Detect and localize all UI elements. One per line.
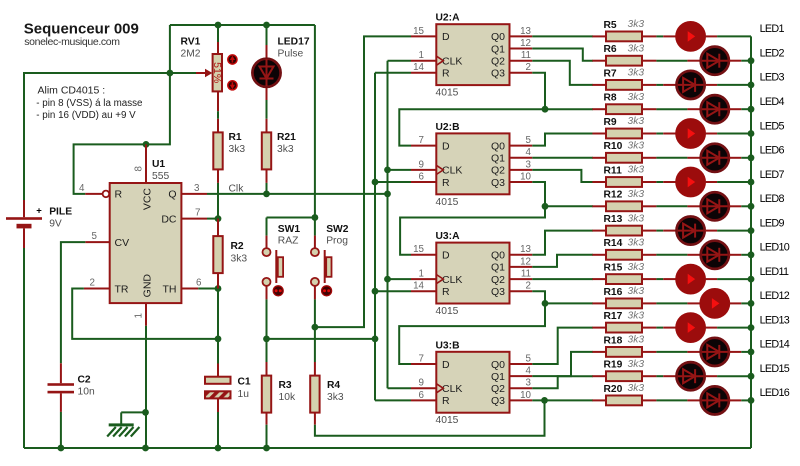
wire U2:A pin 13 bbox=[510, 35, 533, 37]
wire row9 cp bbox=[705, 230, 718, 232]
wire row8 a bbox=[656, 205, 687, 207]
wire batt+ to rail bbox=[24, 73, 196, 200]
svg-text:D: D bbox=[442, 359, 450, 371]
wire row10 ap bbox=[687, 254, 700, 256]
svg-text:R5: R5 bbox=[604, 20, 617, 31]
wire R7 right pin bbox=[642, 84, 656, 86]
shift register U3:B 4015 bbox=[411, 340, 532, 426]
resistor R16 3k3 bbox=[592, 286, 656, 308]
wire row4 ap bbox=[687, 108, 700, 110]
junction gnd-U1 bbox=[142, 445, 149, 452]
svg-text:LED3: LED3 bbox=[760, 72, 785, 84]
wire row10 cp bbox=[729, 254, 742, 256]
junction rail-RV1 bbox=[215, 22, 222, 29]
svg-text:2M2: 2M2 bbox=[181, 49, 201, 60]
svg-text:CLK: CLK bbox=[442, 383, 462, 395]
wire row16 ap bbox=[687, 399, 700, 401]
LED LED10 bbox=[701, 241, 729, 269]
wire r2 top pin bbox=[217, 219, 219, 237]
LED LED11 bbox=[675, 264, 706, 295]
wire battery bottom pin bbox=[23, 228, 25, 248]
wire R8 left pin bbox=[592, 108, 606, 110]
LED LED8 bbox=[701, 192, 729, 220]
LED LED13 bbox=[675, 312, 706, 343]
wire th-c1 bbox=[217, 289, 219, 364]
svg-text:3k3: 3k3 bbox=[628, 116, 645, 127]
wire R5 right pin bbox=[642, 35, 656, 37]
junction bus row13 bbox=[748, 324, 755, 331]
svg-text:R: R bbox=[442, 68, 450, 80]
svg-text:CV: CV bbox=[115, 237, 130, 249]
resistor R13 3k3 bbox=[592, 213, 656, 235]
svg-text:Pulse: Pulse bbox=[278, 49, 304, 60]
junction q3c-row12 bbox=[542, 300, 549, 307]
svg-text:3k3: 3k3 bbox=[231, 254, 248, 265]
resistor R2 bbox=[213, 236, 222, 273]
svg-text:R11: R11 bbox=[604, 165, 623, 176]
wire cathode bus bbox=[750, 36, 752, 448]
wire R14 right pin bbox=[642, 254, 656, 256]
wire row4 cp bbox=[729, 108, 742, 110]
junction bus row2 bbox=[748, 57, 755, 64]
wire q2 row15 bbox=[532, 376, 593, 388]
resistor R6 3k3 bbox=[592, 43, 656, 65]
wire U3:B pin 3 bbox=[510, 387, 533, 389]
wire u2a clk bbox=[388, 60, 412, 62]
junction tr-C1 bbox=[215, 336, 222, 343]
battery PILE 9V bbox=[6, 200, 72, 248]
svg-text:C2: C2 bbox=[78, 375, 91, 386]
svg-text:Q0: Q0 bbox=[491, 31, 505, 43]
wire r1 top pin bbox=[217, 119, 219, 133]
wire row5 c bbox=[717, 133, 751, 135]
wire q1 row14 bbox=[532, 352, 593, 376]
wire R11 left pin bbox=[592, 181, 606, 183]
svg-text:Q2: Q2 bbox=[491, 383, 505, 395]
svg-text:R: R bbox=[115, 189, 123, 201]
wire cv link bbox=[61, 242, 85, 363]
svg-text:1u: 1u bbox=[238, 389, 250, 400]
svg-text:4: 4 bbox=[526, 147, 532, 158]
svg-text:11: 11 bbox=[521, 50, 531, 61]
wire row10 a bbox=[656, 254, 687, 256]
wire R15 left pin bbox=[592, 278, 606, 280]
wire R13 right pin bbox=[642, 230, 656, 232]
wire u3b clk bbox=[388, 387, 412, 389]
junction rbus-raz bbox=[372, 336, 379, 343]
wire clk line bbox=[207, 193, 388, 195]
svg-text:3k3: 3k3 bbox=[628, 310, 645, 321]
resistor R11 3k3 bbox=[592, 165, 656, 187]
svg-text:14: 14 bbox=[413, 281, 424, 292]
svg-text:Alim CD4015 :: Alim CD4015 : bbox=[38, 85, 106, 97]
svg-text:14: 14 bbox=[413, 62, 424, 73]
svg-text:LED1: LED1 bbox=[760, 23, 785, 35]
svg-text:LED8: LED8 bbox=[760, 193, 785, 205]
wire row15 ap bbox=[663, 375, 676, 377]
svg-text:Q2: Q2 bbox=[491, 56, 505, 68]
wire row1 ap bbox=[663, 35, 676, 37]
svg-text:SW2: SW2 bbox=[326, 224, 349, 235]
svg-text:13: 13 bbox=[520, 26, 531, 37]
svg-text:1: 1 bbox=[419, 50, 424, 61]
wire row16 cp bbox=[729, 399, 742, 401]
junction clkbus-u2b bbox=[384, 167, 391, 174]
wire R18 right pin bbox=[642, 351, 656, 353]
junction bus row5 bbox=[748, 130, 755, 137]
wire SW1 top wire bbox=[266, 218, 268, 236]
svg-text:R10: R10 bbox=[604, 141, 623, 152]
wire r4 feedback bbox=[315, 400, 545, 435]
LED LED2 bbox=[701, 47, 729, 75]
junction bus row12 bbox=[748, 300, 755, 307]
wire U3:B pin 4 bbox=[510, 375, 533, 377]
wire raz-r3 bbox=[266, 339, 268, 362]
wire row12 cp bbox=[729, 302, 742, 304]
resistor R18 3k3 bbox=[592, 335, 656, 357]
svg-text:8: 8 bbox=[134, 165, 145, 171]
LED LED6 bbox=[701, 144, 729, 172]
svg-text:9V: 9V bbox=[49, 218, 62, 229]
wire raz line bbox=[267, 338, 376, 340]
wire row1 a bbox=[656, 35, 663, 37]
resistor R20 3k3 bbox=[592, 383, 656, 405]
svg-text:R19: R19 bbox=[604, 360, 623, 371]
wire U2:B pin 3 bbox=[510, 169, 533, 171]
svg-text:2: 2 bbox=[526, 281, 531, 292]
wire r1 bottom pin bbox=[217, 169, 219, 183]
svg-text:Q0: Q0 bbox=[491, 140, 505, 152]
svg-text:LED15: LED15 bbox=[760, 363, 790, 375]
svg-text:3: 3 bbox=[194, 183, 200, 194]
svg-text:SW1: SW1 bbox=[278, 224, 301, 235]
wire led17 top pin bbox=[266, 45, 268, 58]
wire u2a r bbox=[375, 72, 411, 74]
svg-text:- pin 8 (VSS) á la masse: - pin 8 (VSS) á la masse bbox=[36, 98, 143, 109]
junction bus row3 bbox=[748, 82, 755, 89]
wire U2:B pin 6 bbox=[411, 181, 436, 183]
svg-text:CLK: CLK bbox=[442, 274, 462, 286]
wire row15 a bbox=[656, 375, 663, 377]
svg-text:U2:A: U2:A bbox=[436, 13, 461, 24]
wire sw link bbox=[267, 217, 315, 219]
wire u1 gnd bbox=[145, 326, 147, 448]
RV1 up button bbox=[228, 55, 237, 64]
wire row14 ap bbox=[687, 351, 700, 353]
LED LED16 bbox=[701, 386, 729, 414]
svg-text:LED9: LED9 bbox=[760, 217, 785, 229]
wire r3 top pin bbox=[266, 362, 268, 376]
wire u3a r bbox=[375, 290, 411, 292]
wire row11 cp bbox=[705, 278, 718, 280]
wire r1-dc bbox=[217, 183, 219, 219]
wire rv1 bottom pin bbox=[217, 91, 219, 111]
svg-text:12: 12 bbox=[520, 38, 531, 49]
wire pin7 bbox=[181, 218, 207, 220]
wire U2:B pin 5 bbox=[510, 145, 533, 147]
wire row3 c bbox=[717, 84, 751, 86]
svg-text:10: 10 bbox=[520, 171, 531, 182]
svg-text:TH: TH bbox=[163, 283, 177, 295]
svg-text:3k3: 3k3 bbox=[628, 68, 645, 79]
LED LED9 bbox=[677, 217, 705, 245]
wire row6 c bbox=[741, 157, 751, 159]
wire U2:A pin 11 bbox=[510, 60, 533, 62]
junction th-R2 bbox=[215, 285, 222, 292]
resistor R3 10k bbox=[262, 362, 296, 425]
wire row6 a bbox=[656, 157, 687, 159]
svg-text:3k3: 3k3 bbox=[628, 92, 645, 103]
svg-text:LED13: LED13 bbox=[760, 314, 790, 326]
junction q3a-row4 bbox=[542, 106, 549, 113]
wire row5 ap bbox=[663, 133, 676, 135]
wire U2:A pin 2 bbox=[510, 72, 533, 74]
wire c1 bottom pin bbox=[217, 398, 219, 412]
wire row5 a bbox=[656, 133, 663, 135]
wire q2 row11 bbox=[532, 278, 593, 280]
svg-text:R15: R15 bbox=[604, 263, 623, 274]
svg-text:Q3: Q3 bbox=[491, 68, 505, 80]
wire q1 row10 bbox=[532, 255, 593, 267]
wire prog-r4 bbox=[314, 327, 316, 362]
svg-text:PILE: PILE bbox=[49, 206, 72, 217]
wire led17 bottom pin bbox=[266, 88, 268, 100]
wire gnd rail bbox=[24, 447, 751, 449]
resistor R21 3k3 bbox=[262, 119, 296, 183]
wire link3 bbox=[399, 303, 545, 364]
svg-text:4: 4 bbox=[79, 183, 85, 194]
wire row12 ap bbox=[687, 302, 700, 304]
svg-text:15: 15 bbox=[413, 26, 424, 37]
wire U3:B pin 10 bbox=[510, 399, 533, 401]
svg-text:LED7: LED7 bbox=[760, 169, 785, 181]
wire row3 cp bbox=[705, 84, 718, 86]
wire row8 cp bbox=[729, 205, 742, 207]
wire U2:A pin 15 bbox=[411, 35, 436, 37]
svg-text:13: 13 bbox=[520, 244, 531, 255]
svg-text:R16: R16 bbox=[604, 287, 623, 298]
wire U3:A pin 13 bbox=[510, 254, 533, 256]
junction rail-LED17 bbox=[263, 22, 270, 29]
wire row16 a bbox=[656, 399, 687, 401]
junction clk-bus bbox=[384, 191, 391, 198]
wire q3 row16 bbox=[532, 399, 593, 401]
svg-text:3k3: 3k3 bbox=[628, 43, 645, 54]
wire SW1 top pin bbox=[266, 236, 268, 248]
resistor R7 3k3 bbox=[592, 68, 656, 90]
LED LED14 bbox=[701, 338, 729, 366]
svg-text:3k3: 3k3 bbox=[628, 335, 645, 346]
wire c1 gnd bbox=[217, 412, 219, 448]
svg-text:R18: R18 bbox=[604, 335, 623, 346]
resistor R5 3k3 bbox=[592, 19, 656, 41]
svg-text:11: 11 bbox=[521, 269, 531, 280]
junction bus row10 bbox=[748, 251, 755, 258]
wire U2:B pin 7 bbox=[411, 145, 436, 147]
svg-text:10k: 10k bbox=[279, 392, 296, 403]
svg-text:3k3: 3k3 bbox=[628, 213, 645, 224]
svg-text:LED14: LED14 bbox=[760, 339, 790, 351]
wire R11 right pin bbox=[642, 181, 656, 183]
wire row15 c bbox=[717, 375, 751, 377]
svg-text:LED12: LED12 bbox=[760, 290, 790, 302]
SW1 actuator dot bbox=[273, 286, 283, 296]
wire pin6 bbox=[181, 288, 198, 290]
wire row12 c bbox=[741, 302, 751, 304]
wire r3 bottom pin bbox=[266, 413, 268, 425]
wire row1 c bbox=[717, 35, 751, 37]
wire battery top pin bbox=[23, 200, 25, 217]
wire q1 row6 bbox=[532, 157, 593, 159]
svg-text:DC: DC bbox=[161, 213, 177, 225]
resistor R4 3k3 bbox=[310, 362, 344, 425]
svg-text:Q0: Q0 bbox=[491, 250, 505, 262]
svg-text:R17: R17 bbox=[604, 311, 623, 322]
resistor R3 bbox=[262, 376, 271, 413]
wire row4 a bbox=[656, 108, 687, 110]
svg-text:Q3: Q3 bbox=[491, 286, 505, 298]
potentiometer RV1 2M2 bbox=[181, 37, 237, 112]
svg-text:3k3: 3k3 bbox=[327, 392, 344, 403]
svg-text:Q3: Q3 bbox=[491, 177, 505, 189]
svg-text:6: 6 bbox=[196, 278, 202, 289]
svg-text:LED11: LED11 bbox=[760, 266, 789, 278]
wire row12 a bbox=[656, 302, 687, 304]
shift register U2:A 4015 bbox=[411, 13, 532, 99]
junction vcc pin8 tap bbox=[143, 141, 150, 148]
junction gnd-C1 bbox=[215, 445, 222, 452]
wire c1 top pin bbox=[217, 364, 219, 377]
LED LED3 bbox=[677, 71, 705, 99]
wire row8 c bbox=[741, 205, 751, 207]
svg-text:3k3: 3k3 bbox=[628, 189, 645, 200]
junction rbus-u2b bbox=[372, 179, 379, 186]
svg-text:R2: R2 bbox=[231, 241, 244, 252]
svg-text:D: D bbox=[442, 250, 450, 262]
resistor R1 3k3 bbox=[213, 119, 245, 183]
svg-text:3: 3 bbox=[526, 159, 532, 170]
wire pin4 bbox=[85, 193, 102, 195]
wire U2:B pin 10 bbox=[510, 181, 533, 183]
RV1 down button bbox=[228, 81, 237, 90]
junction +9V tap bbox=[167, 70, 174, 77]
svg-text:R3: R3 bbox=[279, 380, 292, 391]
junction gnd-R3 bbox=[263, 445, 270, 452]
svg-text:555: 555 bbox=[152, 171, 169, 182]
svg-text:GND: GND bbox=[142, 274, 154, 298]
junction gnd-C2 bbox=[58, 445, 65, 452]
svg-text:3k3: 3k3 bbox=[628, 19, 645, 30]
wire row7 ap bbox=[663, 181, 676, 183]
wire row14 a bbox=[656, 351, 687, 353]
junction bus row14 bbox=[748, 349, 755, 356]
wire sw2-prog bbox=[314, 299, 316, 327]
wire row11 a bbox=[656, 278, 663, 280]
wire row3 a bbox=[656, 84, 663, 86]
svg-text:VCC: VCC bbox=[142, 188, 154, 211]
wire row10 c bbox=[741, 254, 751, 256]
svg-text:Q0: Q0 bbox=[491, 359, 505, 371]
junction q3b-row8 bbox=[542, 203, 549, 210]
svg-text:CLK: CLK bbox=[442, 165, 462, 177]
wire q2 row7 bbox=[532, 170, 593, 182]
wire R19 right pin bbox=[642, 375, 656, 377]
wire gnd stem bbox=[120, 412, 122, 423]
svg-text:R6: R6 bbox=[604, 44, 617, 55]
wire R16 right pin bbox=[642, 302, 656, 304]
wire row2 cp bbox=[729, 60, 742, 62]
svg-text:4: 4 bbox=[526, 366, 532, 377]
wire rv1-r1 bbox=[217, 111, 219, 119]
junction bus row6 bbox=[748, 154, 755, 161]
svg-text:2: 2 bbox=[526, 62, 531, 73]
junction bus row11 bbox=[748, 276, 755, 283]
svg-text:Prog: Prog bbox=[326, 236, 348, 247]
SW2 actuator dot bbox=[322, 286, 332, 296]
svg-text:4015: 4015 bbox=[436, 306, 459, 317]
wire row9 c bbox=[717, 230, 751, 232]
svg-text:LED16: LED16 bbox=[760, 387, 790, 399]
wire link1 bbox=[399, 109, 545, 145]
wire row11 c bbox=[717, 278, 751, 280]
svg-text:LED2: LED2 bbox=[760, 48, 785, 60]
wire c2 top pin bbox=[60, 363, 62, 383]
wire c2 gnd bbox=[60, 412, 62, 448]
capacitor C1 1u electrolytic bbox=[205, 364, 251, 413]
resistor R15 3k3 bbox=[592, 262, 656, 284]
svg-text:R1: R1 bbox=[229, 132, 242, 143]
wire q3 row4 bbox=[532, 73, 593, 109]
wire pin3 bbox=[181, 193, 207, 195]
wire row4 c bbox=[741, 108, 751, 110]
wire row14 c bbox=[741, 351, 751, 353]
wire q0 row9 bbox=[532, 231, 593, 255]
wire dc link bbox=[207, 218, 218, 220]
wire row11 ap bbox=[663, 278, 676, 280]
svg-text:Q1: Q1 bbox=[491, 371, 505, 383]
junction raz node bbox=[263, 336, 270, 343]
wire led17-r21 bbox=[266, 100, 268, 119]
svg-text:5: 5 bbox=[526, 135, 532, 146]
wire U3:A pin 2 bbox=[510, 290, 533, 292]
junction prog node bbox=[312, 324, 319, 331]
wire row1 cp bbox=[705, 35, 718, 37]
svg-text:Clk: Clk bbox=[229, 183, 245, 194]
wire u3a clk bbox=[388, 278, 412, 280]
wire q3 row12 bbox=[532, 291, 593, 303]
resistor R14 3k3 bbox=[592, 238, 656, 260]
wire U2:B pin 4 bbox=[510, 157, 533, 159]
svg-text:Q3: Q3 bbox=[491, 395, 505, 407]
svg-text:7: 7 bbox=[419, 353, 424, 364]
svg-text:R: R bbox=[442, 395, 450, 407]
wire SW1 bottom pin bbox=[266, 286, 268, 299]
wire r3 gnd bbox=[266, 425, 268, 448]
svg-text:10: 10 bbox=[520, 390, 531, 401]
wire prog-d bbox=[315, 36, 411, 327]
wire R12 right pin bbox=[642, 205, 656, 207]
wire row7 c bbox=[717, 181, 751, 183]
wire R10 left pin bbox=[592, 157, 606, 159]
wire R9 right pin bbox=[642, 133, 656, 135]
junction bus row15 bbox=[748, 373, 755, 380]
wire SW2 top pin bbox=[314, 236, 316, 248]
resistor R8 3k3 bbox=[592, 92, 656, 114]
svg-text:R8: R8 bbox=[604, 93, 617, 104]
svg-text:9: 9 bbox=[419, 378, 424, 389]
wire row13 ap bbox=[663, 327, 676, 329]
svg-text:R9: R9 bbox=[604, 117, 617, 128]
